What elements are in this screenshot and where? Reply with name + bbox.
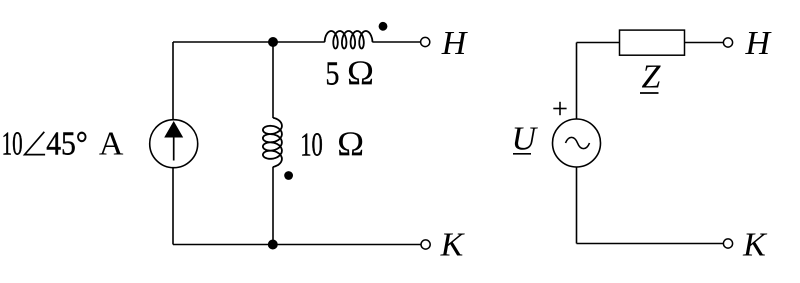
- label U: [512, 121, 539, 158]
- coupling dot L1: [379, 22, 388, 31]
- label Z: [640, 59, 662, 96]
- wire right vertical upper: [576, 43, 578, 120]
- svg-text:U: U: [512, 121, 539, 158]
- terminal H left: [421, 37, 430, 46]
- inductor L2 10ohm coil: [263, 118, 282, 167]
- wire right top horizontal: [577, 42, 620, 44]
- svg-text:5: 5: [325, 56, 339, 93]
- label 10 angle 45deg A: [2, 126, 124, 163]
- svg-text:Ω: Ω: [337, 124, 364, 163]
- wire bottom horizontal left circuit: [173, 244, 421, 246]
- wire coil-to-terminal top: [372, 41, 420, 43]
- terminal H right: [723, 38, 732, 47]
- coupling dot L2: [284, 171, 293, 180]
- impedance box Z: [620, 30, 685, 55]
- wire middle vertical lower: [272, 167, 274, 245]
- terminal K left: [421, 240, 430, 249]
- svg-text:10: 10: [2, 126, 23, 163]
- svg-text:Z: Z: [642, 59, 662, 96]
- inductor L1 5ohm coil: [325, 31, 373, 49]
- node junction top: [268, 37, 278, 47]
- voltage source U circle: [553, 119, 601, 167]
- wire right bottom horizontal: [577, 243, 724, 245]
- svg-text:H: H: [745, 25, 773, 62]
- wire top-left horizontal: [173, 41, 325, 43]
- wire right vertical lower: [576, 167, 578, 244]
- wire left vertical upper: [172, 42, 174, 120]
- svg-text:45°: 45°: [46, 126, 87, 163]
- wire middle vertical upper: [272, 42, 274, 118]
- svg-text:Ω: Ω: [347, 54, 374, 93]
- svg-text:H: H: [441, 25, 469, 62]
- svg-text:K: K: [440, 226, 466, 263]
- plus sign: [553, 102, 566, 115]
- wire left vertical lower: [172, 168, 174, 245]
- current source I1 circle: [150, 120, 198, 168]
- node junction bottom: [268, 240, 278, 250]
- svg-text:10: 10: [300, 126, 323, 163]
- voltage source sine: [566, 137, 590, 148]
- terminal K right: [723, 239, 732, 248]
- svg-text:K: K: [742, 226, 768, 263]
- wire box-to-terminal: [685, 42, 724, 44]
- svg-text:A: A: [99, 126, 124, 163]
- current source I1 arrow: [164, 121, 183, 161]
